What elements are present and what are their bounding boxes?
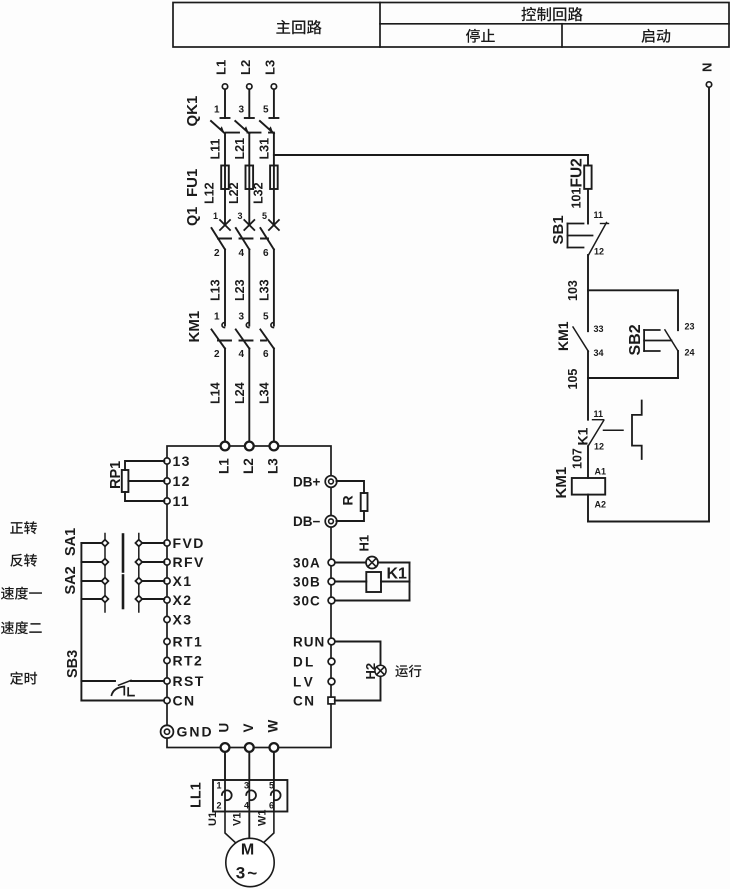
- label: forward 正转: [10, 521, 37, 534]
- KM1 pole 1 fixed contact arc: [222, 323, 225, 328]
- QK1 linkage dashed: [226, 132, 274, 134]
- svg-text:LV: LV: [293, 674, 316, 689]
- K1 NC seat tick: [593, 419, 604, 421]
- svg-text:RFV: RFV: [173, 554, 205, 570]
- wire 30C to right bus: [335, 600, 410, 602]
- svg-text:SB2: SB2: [627, 324, 644, 355]
- KM1 linkage dashed: [218, 340, 266, 342]
- svg-text:FVD: FVD: [173, 535, 205, 551]
- wire LL1 to motor W1: [262, 812, 274, 845]
- svg-text:RT2: RT2: [173, 652, 204, 668]
- svg-text:11: 11: [173, 493, 191, 509]
- wire 103 to KM1 aux: [587, 290, 589, 331]
- wire node 105 branch to SB2: [588, 377, 678, 379]
- svg-text:12: 12: [594, 247, 604, 257]
- wire SB1 to node 103: [587, 255, 589, 290]
- QK1 pole 1 blade: [211, 121, 225, 134]
- SA contact diamond left row 543: [102, 540, 109, 547]
- VFD terminal 13: [164, 458, 170, 464]
- KM1 aux blade: [573, 327, 588, 351]
- wire SA contact to VFD row y=599: [142, 598, 164, 600]
- VFD input terminal L2: [245, 442, 254, 451]
- svg-text:L1: L1: [217, 458, 232, 474]
- wire L23: [248, 250, 250, 326]
- KM1 pole 2 fixed contact arc: [246, 323, 248, 328]
- wire LL1 to motor U1: [225, 812, 238, 845]
- wire L13: [224, 250, 226, 326]
- svg-text:X3: X3: [173, 611, 193, 627]
- label: timing 定时: [10, 672, 37, 685]
- svg-text:Q1: Q1: [185, 207, 201, 226]
- wire K1 coil to right bus: [381, 581, 410, 583]
- VFD terminal FVD: [164, 540, 170, 546]
- svg-text:1: 1: [214, 105, 220, 116]
- SB3 button actuator: [112, 687, 125, 696]
- svg-text:FU2: FU2: [569, 158, 586, 187]
- Q1 pole 2 blade: [236, 228, 250, 250]
- wire L13 QK1 to Q1: [273, 134, 275, 226]
- relay K1 coil body: [366, 572, 381, 592]
- VFD terminal RUN: [328, 638, 335, 645]
- svg-text:13: 13: [173, 453, 191, 469]
- svg-text:L13: L13: [209, 279, 223, 301]
- potentiometer RP1 body: [122, 470, 129, 492]
- fuse FU1 pole 3: [270, 166, 278, 190]
- svg-text:L2: L2: [238, 60, 253, 75]
- svg-text:3: 3: [237, 211, 242, 221]
- wire N riser: [708, 87, 710, 521]
- KM1 pole 3 blade: [260, 330, 274, 349]
- VFD terminal RT1: [164, 638, 170, 644]
- SA left contact column line: [104, 534, 106, 613]
- fuse FU1 pole 1: [221, 166, 229, 190]
- wire SB3 to RST: [131, 680, 164, 682]
- label: speed2 速度二: [1, 621, 42, 634]
- svg-text:L32: L32: [251, 182, 265, 204]
- svg-text:SA1: SA1: [63, 528, 79, 556]
- svg-text:L14: L14: [209, 382, 223, 404]
- wire 101: [587, 189, 589, 224]
- svg-text:2: 2: [217, 801, 222, 811]
- wire: common bus for SA1/SA2/SB3: [80, 543, 82, 701]
- VFD terminal 30A: [328, 559, 335, 566]
- Q1 pole 1 terminal X: [220, 220, 230, 230]
- Q1 pole 3 terminal X: [269, 220, 279, 230]
- VFD terminal 11: [164, 498, 170, 504]
- svg-text:W: W: [266, 720, 281, 733]
- svg-text:L1: L1: [214, 60, 229, 75]
- svg-text:3: 3: [238, 312, 244, 323]
- QK1 pole 3 blade: [260, 121, 274, 134]
- svg-text:1: 1: [214, 312, 220, 323]
- svg-text:6: 6: [263, 349, 269, 360]
- svg-text:2: 2: [214, 349, 220, 360]
- wire DB+ to resistor R: [337, 481, 365, 493]
- VFD terminal X2: [164, 597, 170, 603]
- svg-text:107: 107: [571, 448, 585, 469]
- terminal N: [706, 82, 711, 87]
- VFD terminal CN: [164, 697, 170, 703]
- SA1 wafer bar: [122, 535, 125, 572]
- VFD output terminal U: [221, 743, 230, 752]
- svg-text:A2: A2: [595, 500, 607, 510]
- VFD terminal DB-: [325, 516, 337, 528]
- svg-text:H1: H1: [357, 535, 372, 552]
- wire VFD U to LL1: [224, 752, 226, 780]
- svg-text:30C: 30C: [293, 593, 321, 608]
- table: circuit section header: [173, 3, 729, 48]
- wire L11 QK1 to Q1: [224, 134, 226, 226]
- wire L34: [273, 349, 275, 442]
- VFD input terminal L3: [270, 442, 279, 451]
- Q1 linkage dashed: [218, 238, 268, 240]
- wire resistor R to DB-: [337, 511, 365, 521]
- label: running 运行: [395, 665, 421, 678]
- wire SA contact to VFD row y=581: [142, 580, 164, 582]
- terminal: L3 supply: [271, 84, 276, 89]
- SA right contact column line: [138, 534, 140, 613]
- wire 105 to K1 contact: [587, 378, 589, 420]
- svg-text:3~: 3~: [236, 864, 259, 883]
- svg-text:U: U: [217, 723, 232, 733]
- fuse FU1 pole 2: [246, 166, 254, 190]
- svg-text:34: 34: [594, 348, 604, 358]
- wire L24: [248, 349, 250, 442]
- SA contact diamond right row 581: [135, 578, 142, 585]
- LL1 heater element pole 3: [273, 780, 275, 812]
- wire LL1 to motor V1: [248, 812, 250, 839]
- svg-text:5: 5: [262, 211, 267, 221]
- QK1 pole 1 upper contact tick: [221, 117, 230, 119]
- VFD terminal DB+: [325, 476, 337, 488]
- svg-text:30B: 30B: [293, 574, 321, 589]
- wire bus to SA contact row y=562: [81, 561, 101, 563]
- svg-text:L21: L21: [233, 138, 247, 160]
- VFD terminal 30B: [328, 578, 335, 585]
- lamp H2: [375, 665, 386, 676]
- svg-text:105: 105: [566, 369, 580, 390]
- svg-text:L24: L24: [233, 382, 247, 404]
- wire right bus 30A-30C: [409, 563, 411, 601]
- wire: L1 drop to QK1: [224, 89, 226, 118]
- contactor KM1 coil body: [572, 478, 605, 495]
- svg-text:1: 1: [217, 781, 222, 791]
- wire SB2 branch lower: [677, 351, 679, 378]
- svg-text:X1: X1: [173, 573, 193, 589]
- svg-text:3: 3: [238, 105, 244, 116]
- svg-text:4: 4: [238, 349, 244, 360]
- Q1 pole 3 blade: [260, 228, 274, 250]
- wire KM1 coil to N return: [587, 495, 589, 522]
- svg-text:R: R: [340, 495, 356, 505]
- svg-text:L33: L33: [257, 279, 271, 301]
- svg-text:DB+: DB+: [293, 474, 320, 489]
- wire L31 branch to control circuit: [274, 154, 588, 156]
- svg-text:33: 33: [594, 324, 604, 334]
- svg-text:LL1: LL1: [189, 782, 205, 808]
- wire VFD V to LL1: [248, 752, 250, 780]
- svg-text:L3: L3: [263, 60, 278, 75]
- inverter (VFD) box outline: [167, 446, 331, 748]
- SA2 wafer bar: [122, 576, 125, 609]
- svg-text:101: 101: [570, 188, 584, 209]
- terminal: L1 supply: [222, 84, 227, 89]
- SB1 button actuator: [568, 224, 593, 248]
- svg-text:L23: L23: [233, 279, 247, 301]
- wire H1 to right bus: [378, 562, 410, 564]
- wire: L2 drop to QK1: [248, 89, 250, 118]
- wire terminal11 to RP1 bottom: [125, 492, 164, 501]
- svg-text:30A: 30A: [293, 555, 321, 570]
- Q1 pole 1 blade: [212, 228, 226, 250]
- svg-text:KM1: KM1: [555, 321, 571, 351]
- K1 time-delay actuator symbol: [632, 401, 642, 460]
- SA contact diamond right row 599: [135, 596, 142, 603]
- SA contact diamond left row 562: [102, 559, 109, 566]
- wire bus to SA contact row y=581: [81, 580, 101, 582]
- QK1 pole 2 contact arrow: [244, 126, 249, 133]
- wire 30B to K1 coil: [335, 581, 366, 583]
- svg-text:KM1: KM1: [553, 467, 570, 499]
- terminal: L2 supply: [247, 84, 252, 89]
- wire bus to SA contact row y=599: [81, 598, 101, 600]
- svg-text:L11: L11: [209, 139, 223, 160]
- svg-text:A1: A1: [595, 467, 607, 477]
- svg-text:M: M: [241, 842, 254, 859]
- svg-text:L12: L12: [203, 182, 217, 204]
- svg-text:11: 11: [594, 409, 604, 419]
- wire L14: [224, 349, 226, 442]
- wire 30A to H1: [335, 562, 366, 564]
- svg-text:23: 23: [685, 322, 695, 332]
- VFD terminal X1: [164, 578, 170, 584]
- VFD terminal GND: [161, 725, 174, 738]
- svg-text:1: 1: [213, 211, 218, 221]
- QK1 pole 2 blade: [235, 121, 249, 134]
- SB1 blade: [589, 223, 607, 256]
- svg-text:RST: RST: [173, 673, 205, 689]
- resistor R body: [361, 493, 368, 511]
- svg-text:103: 103: [566, 280, 580, 301]
- VFD terminal CN (right): [328, 697, 335, 704]
- K1 blade: [588, 421, 604, 447]
- K1 actuator link: [604, 429, 624, 431]
- wire to FU2: [587, 155, 589, 166]
- svg-text:RUN: RUN: [293, 634, 325, 649]
- fuse FU2: [584, 166, 591, 189]
- VFD terminal X3: [164, 616, 170, 622]
- VFD terminal RT2: [164, 657, 170, 663]
- wire L33: [273, 250, 275, 326]
- svg-text:RT1: RT1: [173, 633, 204, 649]
- lamp H1: [366, 557, 378, 569]
- wire: L3 drop to QK1: [273, 89, 275, 118]
- svg-text:6: 6: [269, 801, 274, 811]
- wire bus to CN: [81, 700, 163, 702]
- wire KM1 aux to node 105: [587, 351, 589, 378]
- wire SB2 branch upper: [677, 290, 679, 330]
- SA contact diamond left row 599: [102, 596, 109, 603]
- SA contact diamond right row 543: [135, 540, 142, 547]
- VFD terminal RST: [164, 678, 170, 684]
- svg-text:L3: L3: [266, 458, 281, 474]
- wire H2 to CN: [335, 676, 381, 700]
- QK1 pole 3 upper contact tick: [269, 117, 278, 119]
- svg-text:L2: L2: [241, 458, 256, 474]
- VFD output terminal V: [245, 743, 254, 752]
- label: start 启动: [641, 29, 670, 43]
- SB3 blade: [119, 680, 132, 685]
- QK1 pole 1 contact arrow: [220, 126, 225, 133]
- wire SA contact to VFD row y=543: [142, 542, 164, 544]
- label: reverse 反转: [10, 554, 37, 567]
- wire terminal13 to RP1 top: [125, 461, 164, 470]
- svg-text:L31: L31: [257, 138, 271, 160]
- wire node 103 branch to SB2: [588, 289, 678, 291]
- svg-text:CN: CN: [173, 692, 196, 708]
- svg-text:5: 5: [263, 312, 269, 323]
- LL1 heater element pole 2: [248, 780, 250, 812]
- QK1 pole 2 upper contact tick: [245, 117, 254, 119]
- VFD terminal 30C: [328, 597, 335, 604]
- KM1 pole 3 fixed contact arc: [271, 323, 274, 328]
- wire terminal12 to RP1 wiper: [128, 480, 164, 482]
- svg-text:DL: DL: [293, 654, 315, 669]
- wire 107 to KM1 coil: [587, 446, 589, 478]
- svg-text:K1: K1: [387, 566, 408, 583]
- SA contact diamond right row 562: [135, 559, 142, 566]
- KM1 pole 1 blade: [212, 330, 226, 349]
- svg-text:12: 12: [173, 473, 191, 489]
- label: control circuit 控制回路: [521, 7, 582, 21]
- SB2 blade: [665, 330, 678, 351]
- svg-text:4: 4: [238, 248, 244, 259]
- wire L12 QK1 to Q1: [248, 134, 250, 226]
- svg-text:N: N: [700, 63, 715, 72]
- wire VFD W to LL1: [273, 752, 275, 780]
- svg-text:4: 4: [244, 801, 249, 811]
- svg-text:W1: W1: [257, 810, 269, 827]
- svg-text:6: 6: [263, 248, 269, 259]
- KM1 pole 2 blade: [236, 330, 250, 349]
- svg-text:CN: CN: [293, 693, 316, 708]
- motor M 3~: [226, 838, 274, 886]
- SA contact diamond left row 581: [102, 578, 109, 585]
- svg-text:FU1: FU1: [184, 169, 201, 197]
- svg-text:K1: K1: [575, 427, 591, 445]
- svg-text:X2: X2: [173, 592, 193, 608]
- VFD input terminal L1: [221, 442, 230, 451]
- overload relay LL1 box: [213, 780, 287, 812]
- VFD terminal LV: [328, 678, 335, 685]
- wire SA contact to VFD row y=562: [142, 561, 164, 563]
- svg-text:QK1: QK1: [184, 96, 201, 127]
- VFD output terminal W: [270, 743, 279, 752]
- VFD terminal RFV: [164, 559, 170, 565]
- SB1 NC seat tick: [601, 223, 609, 225]
- label: stop 停止: [466, 29, 495, 43]
- svg-text:L22: L22: [227, 182, 241, 204]
- wire bottom return to N: [588, 521, 709, 523]
- svg-text:V: V: [241, 723, 256, 732]
- svg-text:24: 24: [685, 348, 695, 358]
- svg-text:V1: V1: [232, 813, 244, 826]
- svg-text:U1: U1: [207, 812, 219, 826]
- Q1 pole 2 terminal X: [244, 220, 254, 230]
- svg-text:SA2: SA2: [63, 566, 79, 594]
- VFD terminal DL: [328, 658, 335, 665]
- label: speed1 速度一: [1, 587, 42, 600]
- svg-text:SB3: SB3: [65, 650, 81, 678]
- label: main circuit 主回路: [276, 20, 321, 34]
- wire RUN to H2: [335, 642, 381, 666]
- QK1 pole 3 contact arrow: [268, 126, 273, 133]
- svg-text:KM1: KM1: [186, 311, 203, 343]
- wire bus to SA contact row y=543: [81, 542, 101, 544]
- VFD terminal 12: [164, 478, 170, 484]
- svg-text:SB1: SB1: [550, 215, 567, 244]
- svg-text:3: 3: [244, 781, 249, 791]
- SB2 button actuator: [644, 330, 671, 351]
- svg-text:12: 12: [594, 442, 604, 452]
- svg-text:11: 11: [594, 210, 604, 220]
- LL1 heater element pole 1: [224, 780, 226, 812]
- svg-text:GND: GND: [177, 724, 214, 740]
- svg-text:5: 5: [263, 105, 269, 116]
- svg-text:2: 2: [214, 248, 220, 259]
- svg-text:DB−: DB−: [293, 514, 320, 529]
- svg-text:L34: L34: [257, 382, 271, 404]
- wire bus to SB3: [81, 680, 115, 682]
